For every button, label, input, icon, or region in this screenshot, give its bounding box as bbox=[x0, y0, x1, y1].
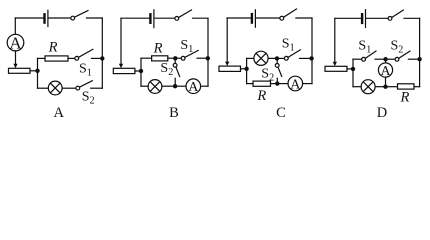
svg-text:S2: S2 bbox=[160, 61, 173, 78]
switch S2 (A) lever bbox=[79, 81, 92, 88]
svg-text:A: A bbox=[290, 77, 301, 92]
rheostat body D bbox=[325, 66, 347, 71]
svg-text:S2: S2 bbox=[391, 39, 404, 56]
svg-text:A: A bbox=[53, 105, 64, 121]
wire node-to-S2 (D) bbox=[386, 58, 396, 60]
wire to lamp (C) bbox=[247, 57, 254, 59]
svg-text:R: R bbox=[256, 88, 266, 104]
battery A negative plate bbox=[43, 14, 45, 22]
wire switch-to-corner C bbox=[296, 17, 312, 19]
battery C positive plate bbox=[254, 10, 256, 27]
switch S1 (B) pivot bbox=[181, 56, 185, 60]
switch S1 (B) lever bbox=[185, 50, 199, 57]
wire battery-to-switch A bbox=[49, 17, 71, 19]
wire ammeter-to-slider A bbox=[15, 51, 17, 64]
wire R-to-right (D) bbox=[414, 86, 420, 88]
switch S2 (B) pivot bbox=[173, 63, 177, 67]
junction node C (after lamp) bbox=[275, 56, 279, 60]
wire rheostat-to-node B bbox=[135, 70, 141, 72]
ammeter A1 circle bbox=[7, 34, 24, 51]
wire battery-to-switch D bbox=[366, 17, 388, 19]
svg-text:S2: S2 bbox=[82, 90, 95, 107]
battery B negative plate bbox=[149, 14, 151, 22]
resistor R (C) body bbox=[253, 81, 271, 86]
wire to lamp (B) bbox=[141, 85, 148, 87]
ammeter A4 circle bbox=[378, 63, 392, 77]
junction node A (rheostat to branch bus) bbox=[35, 69, 39, 73]
switch S2 (D) lever bbox=[399, 51, 410, 58]
lamp L (A) circle bbox=[48, 81, 62, 95]
wire to resistor R (A) bbox=[38, 57, 46, 59]
wire S1-to-right (B) bbox=[197, 57, 208, 59]
svg-text:R: R bbox=[153, 41, 163, 57]
junction node B (bottom branch / S2) bbox=[173, 84, 177, 88]
wire left vertical C bbox=[226, 18, 228, 62]
wire R-to-node (C) bbox=[271, 83, 278, 85]
battery B positive plate bbox=[153, 10, 155, 28]
wire S1-to-right (A) bbox=[92, 57, 103, 59]
wire node-to-ammeter (C) bbox=[277, 83, 288, 85]
wire branch bus vertical B bbox=[140, 58, 142, 86]
wire rheostat-to-node D bbox=[347, 68, 353, 70]
rheostat slider arrow B bbox=[119, 64, 123, 68]
wire S2-to-right (D) bbox=[408, 58, 419, 60]
rheostat body A bbox=[9, 68, 31, 73]
wire branch bus vertical A bbox=[37, 58, 39, 88]
resistor R (A) body bbox=[45, 56, 68, 61]
lamp L (B) circle bbox=[148, 80, 162, 94]
junction node D (rheostat to branch bus) bbox=[351, 67, 355, 71]
junction node B (rheostat to branch bus) bbox=[139, 69, 143, 73]
switch S2 (A) pivot bbox=[76, 86, 80, 90]
wire node-to-S2 pivot (C) bbox=[276, 58, 278, 63]
battery D positive plate bbox=[365, 10, 367, 28]
wire battery-to-switch B bbox=[155, 17, 175, 19]
wire S2 fixed stub (C) bbox=[276, 78, 278, 83]
lamp L (D) cross bbox=[363, 82, 373, 92]
junction node D (bottom branch / ammeter) bbox=[383, 85, 387, 89]
switch S2 (B) lever bbox=[176, 67, 180, 77]
wire battery-to-switch C bbox=[256, 17, 280, 19]
wire ammeter-to-right (B) bbox=[201, 85, 208, 87]
svg-text:A: A bbox=[188, 80, 199, 95]
switch S2 (C) pivot bbox=[275, 64, 279, 68]
wire node-to-R (D) bbox=[386, 86, 398, 88]
wire node-to-S2 pivot (B) bbox=[174, 58, 176, 63]
svg-text:S1: S1 bbox=[180, 38, 193, 55]
svg-text:B: B bbox=[169, 105, 179, 121]
svg-text:A: A bbox=[9, 33, 22, 52]
wire lamp-to-node (D) bbox=[375, 86, 385, 88]
switch S (top) B lever bbox=[179, 10, 192, 18]
wire top-left B bbox=[121, 17, 149, 19]
junction node B (after R) bbox=[173, 56, 177, 60]
wire switch-to-corner B bbox=[193, 17, 209, 19]
wire to S1 (D) bbox=[353, 58, 362, 60]
wire branch bus vertical C bbox=[246, 58, 248, 83]
switch S (top) A pivot bbox=[71, 16, 75, 20]
wire right vertical B bbox=[207, 18, 209, 86]
wire to resistor R (B) bbox=[141, 57, 152, 59]
switch S1 (D) lever bbox=[365, 51, 376, 58]
wire top-left A bbox=[15, 17, 43, 19]
svg-text:S1: S1 bbox=[79, 62, 92, 79]
wire switch-to-corner A bbox=[87, 17, 103, 19]
switch S (top) C pivot bbox=[280, 16, 284, 20]
switch S1 (C) lever bbox=[288, 50, 300, 58]
lamp L (D) circle bbox=[361, 80, 375, 94]
switch S1 (A) lever bbox=[78, 49, 92, 57]
junction node B (top branch / right bus) bbox=[206, 56, 210, 60]
wire right vertical D bbox=[419, 18, 421, 86]
wire to lamp (A) bbox=[38, 87, 49, 89]
wire S1-to-node (D) bbox=[375, 58, 386, 60]
wire branch bus vertical D bbox=[352, 59, 354, 86]
switch S1 (D) pivot bbox=[362, 57, 366, 61]
lamp L (A) cross bbox=[50, 83, 60, 93]
battery A positive plate bbox=[47, 10, 49, 26]
wire right vertical C bbox=[311, 18, 313, 84]
svg-text:S1: S1 bbox=[282, 37, 295, 54]
ammeter A3 circle bbox=[288, 76, 303, 91]
wire left vertical B bbox=[120, 18, 122, 64]
switch S1 (A) pivot bbox=[75, 56, 79, 60]
svg-text:R: R bbox=[48, 40, 58, 56]
switch S (top) D lever bbox=[392, 10, 404, 17]
svg-text:R: R bbox=[399, 90, 409, 106]
junction node D (top branch / right bus) bbox=[417, 57, 421, 61]
junction node C (rheostat to branch bus) bbox=[244, 67, 248, 71]
ammeter A2 circle bbox=[186, 79, 201, 94]
wire to resistor R (C) bbox=[247, 83, 253, 85]
wire left vertical D bbox=[334, 18, 336, 62]
wire node-to-S1 (B) bbox=[175, 57, 181, 59]
rheostat slider arrow A bbox=[13, 64, 17, 68]
wire lamp-to-node (B) bbox=[162, 85, 175, 87]
junction node A (top branch / right bus) bbox=[100, 56, 104, 60]
wire switch-to-corner D bbox=[404, 17, 420, 19]
wire S2-to-right (A) bbox=[91, 87, 103, 89]
junction node C (top branch / right bus) bbox=[309, 56, 313, 60]
switch S1 (C) pivot bbox=[284, 56, 288, 60]
wire R-to-S1 (A) bbox=[68, 57, 75, 59]
rheostat slider arrow D bbox=[333, 62, 337, 66]
wire top-left D bbox=[335, 17, 361, 19]
wire lamp-to-S2 (A) bbox=[62, 87, 76, 89]
rheostat body B bbox=[113, 68, 135, 73]
svg-text:S1: S1 bbox=[358, 39, 371, 56]
wire R-to-node (B) bbox=[168, 57, 176, 59]
wire ammeter-to-right (C) bbox=[303, 83, 312, 85]
switch S (top) B pivot bbox=[175, 17, 179, 21]
switch S (top) C lever bbox=[284, 9, 297, 17]
rheostat slider arrow C bbox=[225, 62, 229, 66]
battery C negative plate bbox=[251, 14, 253, 23]
wire node-to-S1 (C) bbox=[277, 57, 284, 59]
wire rheostat-to-node C bbox=[241, 68, 247, 70]
svg-text:C: C bbox=[276, 105, 286, 121]
wire right vertical A bbox=[101, 18, 103, 88]
wire ammeter-to-node (D) bbox=[385, 77, 387, 87]
switch S (top) A lever bbox=[74, 11, 88, 18]
wire S2 fixed stub (B) bbox=[174, 78, 176, 86]
svg-text:D: D bbox=[377, 105, 387, 121]
wire node-to-ammeter (B) bbox=[175, 85, 186, 87]
switch S2 (D) pivot bbox=[395, 57, 399, 61]
wire rheostat-to-node A bbox=[30, 70, 38, 72]
lamp L (C) cross bbox=[256, 53, 266, 63]
battery D negative plate bbox=[361, 14, 363, 23]
wire lamp-to-node (C) bbox=[268, 57, 277, 59]
junction node C (bottom branch / S2) bbox=[275, 81, 279, 85]
wire to lamp (D) bbox=[353, 86, 361, 88]
lamp L (C) circle bbox=[254, 51, 268, 65]
wire left vertical A bbox=[14, 18, 16, 34]
resistor R (B) body bbox=[152, 56, 168, 61]
wire top-left C bbox=[227, 17, 251, 19]
switch S (top) D pivot bbox=[388, 17, 392, 21]
lamp L (B) cross bbox=[150, 82, 160, 92]
junction node D (between S1 and S2) bbox=[383, 57, 387, 61]
rheostat body C bbox=[219, 66, 241, 71]
wire node-to-ammeter (D) bbox=[385, 59, 387, 63]
switch S2 (C) lever bbox=[278, 67, 282, 76]
resistor R (D) body bbox=[398, 84, 415, 89]
wire S1-to-right (C) bbox=[300, 57, 313, 59]
